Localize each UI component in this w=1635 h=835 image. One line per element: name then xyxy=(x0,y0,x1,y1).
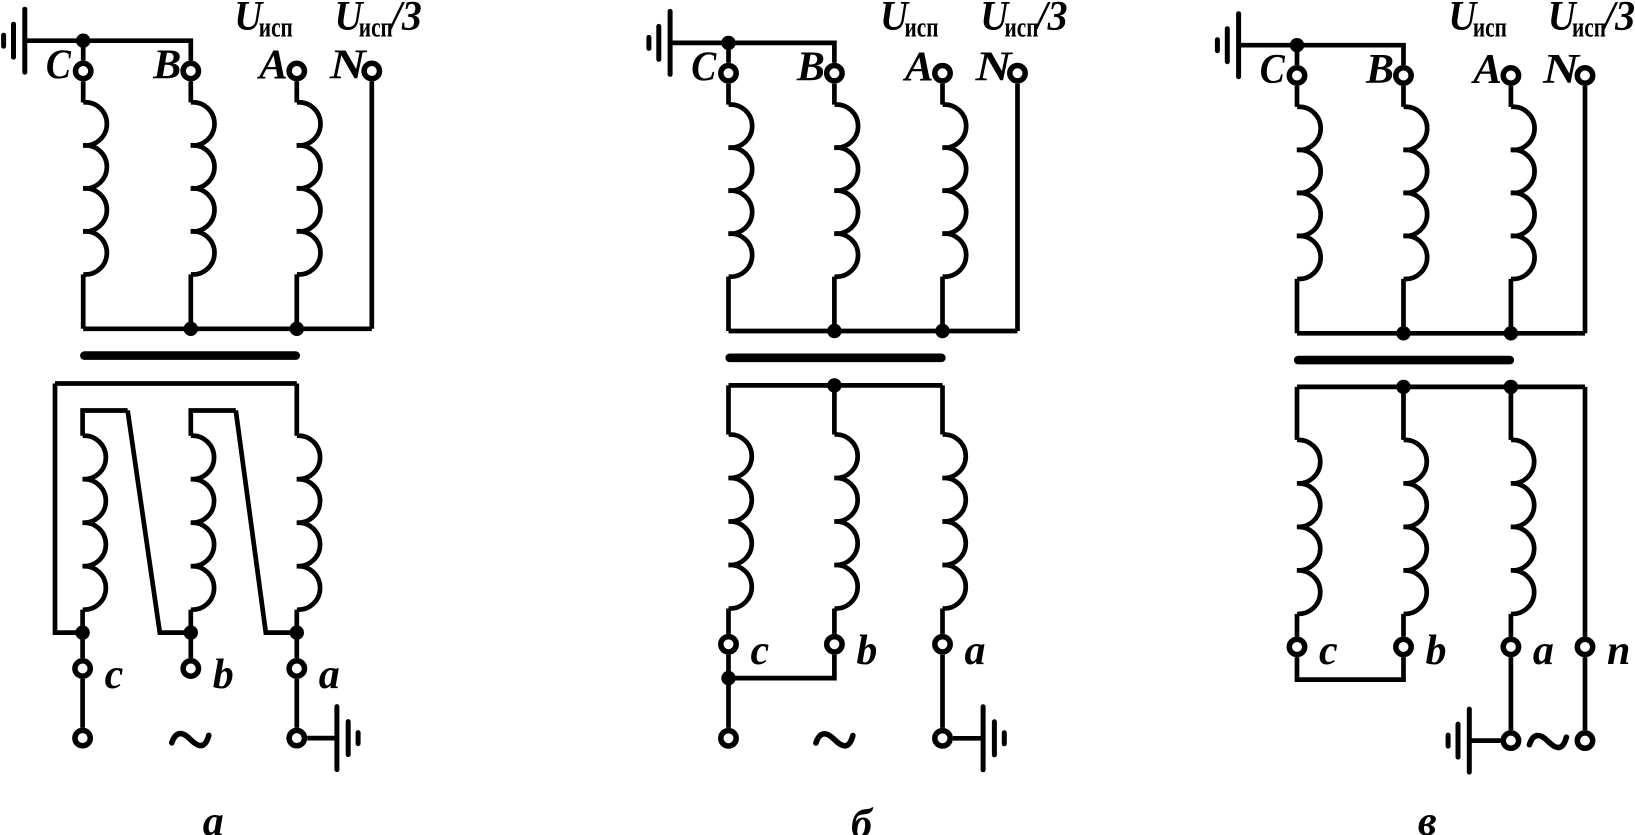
wire bus to winding a (б) xyxy=(940,385,945,434)
svg-text:b: b xyxy=(856,628,877,674)
terminal N (в) xyxy=(1577,68,1592,83)
wire left rail of delta (а) xyxy=(55,384,82,633)
wire bus to winding c (б) xyxy=(726,385,731,434)
terminal a (б) xyxy=(935,637,950,652)
node a junction (а) xyxy=(290,625,304,639)
wire winding a to terminal (в) xyxy=(1509,614,1514,637)
terminal A (а) xyxy=(289,63,304,78)
wire terminal B to winding (в) xyxy=(1401,86,1406,107)
primary star-point bus (а) xyxy=(83,326,372,331)
terminal C (б) xyxy=(721,66,736,81)
wire winding c to node (а) xyxy=(80,610,85,633)
svg-text:B: B xyxy=(152,43,181,89)
node: bus junction at B (б) xyxy=(827,324,841,338)
svg-text:/3: /3 xyxy=(1034,0,1068,40)
svg-text:в: в xyxy=(1418,799,1437,835)
primary winding B (б) xyxy=(834,105,858,277)
wire bus to winding b (б) xyxy=(832,385,837,434)
svg-text:N: N xyxy=(1542,47,1581,93)
svg-text:исп: исп xyxy=(1572,13,1606,44)
wire winding B to star bus (а) xyxy=(188,274,193,328)
primary winding B (а) xyxy=(191,102,215,274)
svg-text:b: b xyxy=(1426,628,1447,674)
secondary winding b (б) xyxy=(834,434,857,608)
wire winding a to terminal (б) xyxy=(940,609,945,634)
svg-text:n: n xyxy=(1607,628,1630,674)
svg-text:A: A xyxy=(1470,47,1502,93)
node: bus junction at B (а) xyxy=(184,322,198,336)
terminal C (а) xyxy=(76,63,91,78)
secondary winding c (а) xyxy=(83,436,106,610)
wire winding b to terminal (б) xyxy=(832,609,837,634)
terminal b (в) xyxy=(1396,639,1411,654)
secondary winding a (б) xyxy=(943,434,966,608)
svg-text:исп: исп xyxy=(905,13,939,44)
AC source ~ (в) xyxy=(1529,735,1566,747)
wire source to ground (в) xyxy=(1469,738,1500,743)
wire winding a to node (а) xyxy=(294,610,299,633)
svg-text:A: A xyxy=(902,45,934,91)
svg-text:B: B xyxy=(796,45,825,91)
transformer core (в) xyxy=(1298,356,1510,365)
secondary top bus (а) xyxy=(55,381,297,386)
wire junction to source (б) xyxy=(726,678,731,728)
svg-text:A: A xyxy=(256,43,288,89)
terminal c (б) xyxy=(721,637,736,652)
terminal c (а) xyxy=(75,661,90,676)
wire node to terminal c (а) xyxy=(80,633,85,659)
svg-text:исп: исп xyxy=(259,13,293,44)
AC source ~ (б) xyxy=(816,734,853,746)
node b junction (а) xyxy=(184,625,198,639)
source terminal at c (а) xyxy=(75,730,90,745)
node: secondary bus junction at a (в) xyxy=(1504,380,1518,394)
wire terminal C to winding (б) xyxy=(726,84,731,105)
node c junction (а) xyxy=(75,625,89,639)
secondary winding c (в) xyxy=(1297,440,1320,614)
wire delta diagonal from winding c (а) xyxy=(128,411,191,633)
primary star-point bus (б) xyxy=(729,329,1018,334)
svg-text:N: N xyxy=(974,45,1013,91)
ground at secondary a (в) xyxy=(1448,709,1469,772)
ground at secondary a (б) xyxy=(983,707,1004,770)
secondary winding b (а) xyxy=(191,436,214,610)
wire terminal a to source (а) xyxy=(294,679,299,728)
terminal A (в) xyxy=(1503,68,1518,83)
source terminal at c (б) xyxy=(721,731,736,746)
terminal B (в) xyxy=(1396,68,1411,83)
wire link c to b (б) xyxy=(729,655,835,678)
terminal b (а) xyxy=(183,661,198,676)
svg-text:a: a xyxy=(965,628,986,674)
svg-text:исп: исп xyxy=(1005,13,1039,44)
svg-text:б: б xyxy=(851,801,874,835)
terminal A (б) xyxy=(935,66,950,81)
wire terminal B to winding (б) xyxy=(832,84,837,105)
svg-text:/3: /3 xyxy=(1601,0,1635,40)
wire terminal c down (б) xyxy=(726,655,731,678)
node: junction above C (б) xyxy=(721,36,735,50)
secondary winding c (б) xyxy=(729,434,752,608)
svg-text:исп: исп xyxy=(1473,13,1507,44)
wire bus to winding c (в) xyxy=(1295,387,1300,440)
terminal a (в) xyxy=(1503,639,1518,654)
wire delta top jog winding b (а) xyxy=(191,411,236,436)
secondary winding a (в) xyxy=(1511,440,1534,614)
terminal C (в) xyxy=(1289,68,1304,83)
terminal a (а) xyxy=(289,661,304,676)
wire winding C to star bus (б) xyxy=(726,277,731,331)
svg-text:/3: /3 xyxy=(388,0,422,40)
wire winding c to terminal (в) xyxy=(1295,614,1300,637)
node: bus junction at A (б) xyxy=(935,324,949,338)
node: bus junction at A (в) xyxy=(1504,326,1518,340)
wire terminal A to winding (в) xyxy=(1509,86,1514,107)
wire delta diagonal from winding b (а) xyxy=(236,411,297,633)
wire source to ground (б) xyxy=(953,736,983,741)
wire winding A to star bus (б) xyxy=(940,277,945,331)
node: junction above C (а) xyxy=(76,34,90,48)
transformer core (а) xyxy=(84,351,295,360)
primary star-point bus (в) xyxy=(1297,331,1585,336)
svg-text:C: C xyxy=(1260,47,1286,93)
wire terminal a to source (б) xyxy=(940,655,945,728)
svg-text:B: B xyxy=(1365,47,1394,93)
wire delta top jog winding c (а) xyxy=(83,411,128,436)
wire winding C to star bus (а) xyxy=(81,274,86,328)
svg-text:b: b xyxy=(213,652,234,698)
source terminal at a (б) xyxy=(935,731,950,746)
terminal N (б) xyxy=(1010,66,1025,81)
wire junction to terminal C (б) xyxy=(726,43,731,63)
wire winding c to terminal (б) xyxy=(726,609,731,634)
source terminal at a (а) xyxy=(289,730,304,745)
wire bus to terminal n (в) xyxy=(1583,387,1588,637)
wire bus to winding a (в) xyxy=(1509,387,1514,440)
primary winding C (в) xyxy=(1297,107,1321,279)
svg-text:a: a xyxy=(1533,628,1554,674)
svg-text:N: N xyxy=(329,43,368,89)
wire terminal n to source (в) xyxy=(1583,657,1588,730)
secondary top bus (в) xyxy=(1297,385,1585,390)
secondary winding b (в) xyxy=(1404,440,1427,614)
wire link c to b (в) xyxy=(1297,657,1404,679)
terminal B (б) xyxy=(827,66,842,81)
transformer core (б) xyxy=(730,353,942,362)
primary winding A (б) xyxy=(943,105,967,277)
wire terminal A to winding (б) xyxy=(940,84,945,105)
ground at secondary a (а) xyxy=(337,707,358,770)
wire ground to terminal B (в) xyxy=(1239,45,1404,65)
wire winding B to star bus (в) xyxy=(1401,279,1406,333)
wire terminal C to winding (а) xyxy=(81,82,86,103)
wire terminal B to winding (а) xyxy=(188,82,193,103)
wire winding A to star bus (а) xyxy=(294,274,299,328)
wire junction to terminal C (а) xyxy=(81,41,86,61)
wire junction to terminal C (в) xyxy=(1295,45,1300,65)
wire source to ground (а) xyxy=(307,736,337,741)
wire bus to winding b (в) xyxy=(1401,387,1406,440)
node: bus junction at A (а) xyxy=(290,322,304,336)
wire node to terminal b (а) xyxy=(188,633,193,659)
wire winding a top to bus (а) xyxy=(294,384,299,436)
svg-text:c: c xyxy=(1319,628,1338,674)
AC source ~ (а) xyxy=(172,734,209,746)
terminal n (в) xyxy=(1577,639,1592,654)
node: link junction at c (б) xyxy=(721,671,735,685)
source terminal at n (в) xyxy=(1577,733,1592,748)
wire terminal N down (б) xyxy=(1015,84,1020,331)
secondary winding a (а) xyxy=(297,436,320,610)
secondary top bus (б) xyxy=(729,383,943,388)
primary winding B (в) xyxy=(1404,107,1428,279)
svg-text:C: C xyxy=(46,43,72,89)
wire terminal A to winding (а) xyxy=(294,82,299,103)
primary winding A (а) xyxy=(297,102,321,274)
wire terminal c to source (а) xyxy=(80,679,85,728)
terminal c (в) xyxy=(1289,639,1304,654)
node: secondary bus junction at b (б) xyxy=(827,378,841,392)
svg-text:a: a xyxy=(319,652,340,698)
ground (HV neutral earth, diagram а) xyxy=(4,9,25,72)
wire ground to terminal B (а) xyxy=(25,41,191,61)
ground (HV neutral earth, diagram в) xyxy=(1217,14,1238,77)
node: bus junction at B (в) xyxy=(1396,326,1410,340)
svg-text:а: а xyxy=(203,799,224,835)
primary winding A (в) xyxy=(1511,107,1535,279)
terminal N (а) xyxy=(364,63,379,78)
svg-text:c: c xyxy=(105,652,124,698)
wire ground to terminal B (б) xyxy=(670,43,834,63)
wire terminal N down (в) xyxy=(1583,86,1588,333)
source terminal at a (в) xyxy=(1503,733,1518,748)
wire winding C to star bus (в) xyxy=(1295,279,1300,333)
wire terminal C to winding (в) xyxy=(1295,86,1300,107)
wire winding b to node (а) xyxy=(188,610,193,633)
node: secondary bus junction at b (в) xyxy=(1396,380,1410,394)
terminal B (а) xyxy=(183,63,198,78)
svg-text:C: C xyxy=(691,45,717,91)
wire winding A to star bus (в) xyxy=(1509,279,1514,333)
node: junction above C (в) xyxy=(1290,38,1304,52)
wire winding b to terminal (в) xyxy=(1401,614,1406,637)
wire winding B to star bus (б) xyxy=(832,277,837,331)
svg-text:c: c xyxy=(751,628,770,674)
svg-text:исп: исп xyxy=(359,13,393,44)
terminal b (б) xyxy=(827,637,842,652)
primary winding C (а) xyxy=(83,102,107,274)
wire terminal N down (а) xyxy=(369,82,374,329)
primary winding C (б) xyxy=(729,105,753,277)
wire node to terminal a (а) xyxy=(294,633,299,659)
ground (HV neutral earth, diagram б) xyxy=(649,11,670,74)
wire terminal a to source (в) xyxy=(1509,657,1514,730)
